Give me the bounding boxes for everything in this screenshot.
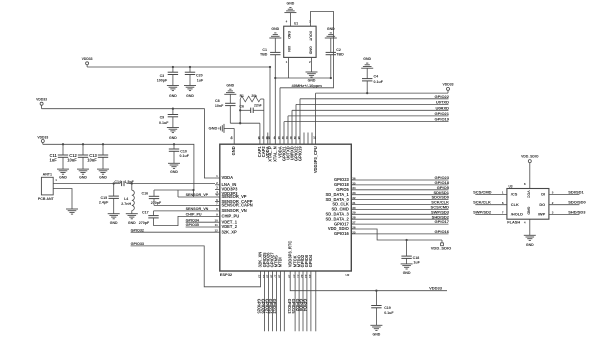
svg-text:FLASH: FLASH bbox=[507, 220, 520, 225]
svg-text:GPIO34: GPIO34 bbox=[186, 218, 200, 222]
svg-text:1uF: 1uF bbox=[197, 79, 204, 83]
svg-text:C1: C1 bbox=[262, 48, 267, 52]
svg-text:C15: C15 bbox=[101, 196, 108, 200]
svg-text:10: 10 bbox=[214, 218, 218, 222]
svg-text:SCS/CMD: SCS/CMD bbox=[473, 189, 492, 194]
svg-text:GND: GND bbox=[186, 94, 194, 98]
svg-text:VDD_SDIO: VDD_SDIO bbox=[431, 245, 451, 250]
svg-text:GND: GND bbox=[309, 46, 313, 54]
svg-text:20k: 20k bbox=[251, 94, 257, 98]
svg-text:SENSOR_CAPN: SENSOR_CAPN bbox=[222, 203, 253, 208]
svg-text:0.1uF: 0.1uF bbox=[180, 154, 190, 158]
svg-text:48: 48 bbox=[257, 136, 261, 140]
svg-text:GND: GND bbox=[169, 136, 177, 140]
svg-text:23: 23 bbox=[304, 275, 308, 279]
svg-text:22nF: 22nF bbox=[254, 104, 262, 108]
svg-text:VDD33: VDD33 bbox=[37, 135, 48, 139]
svg-text:GND: GND bbox=[287, 2, 295, 6]
svg-text:C3: C3 bbox=[160, 74, 165, 78]
svg-text:ANT1: ANT1 bbox=[43, 172, 52, 176]
svg-text:GND: GND bbox=[327, 27, 335, 31]
svg-text:VDD_SDIO: VDD_SDIO bbox=[521, 155, 539, 159]
svg-text:R1: R1 bbox=[240, 94, 244, 98]
svg-text:18: 18 bbox=[278, 275, 282, 279]
svg-text:21: 21 bbox=[296, 275, 300, 279]
svg-text:GPIO16: GPIO16 bbox=[435, 229, 450, 234]
svg-text:U0TXD: U0TXD bbox=[436, 100, 449, 105]
svg-text:DO: DO bbox=[539, 202, 545, 207]
svg-text:13: 13 bbox=[258, 275, 262, 279]
svg-text:GND: GND bbox=[271, 27, 279, 31]
svg-text:GPIO21: GPIO21 bbox=[435, 111, 450, 116]
svg-text:GPIO16: GPIO16 bbox=[334, 231, 350, 236]
svg-text:17: 17 bbox=[274, 275, 278, 279]
svg-text:GPIO12: GPIO12 bbox=[272, 299, 277, 315]
svg-text:U3: U3 bbox=[509, 184, 513, 188]
svg-text:DI: DI bbox=[541, 192, 545, 197]
svg-text:/WP: /WP bbox=[538, 212, 546, 217]
svg-text:XTAL_P: XTAL_P bbox=[267, 146, 272, 162]
svg-text:ESP32: ESP32 bbox=[220, 272, 233, 277]
svg-text:VDD33: VDD33 bbox=[443, 82, 454, 86]
svg-text:SENSOR_VN: SENSOR_VN bbox=[186, 207, 209, 211]
svg-text:GPIO19: GPIO19 bbox=[435, 117, 450, 122]
svg-text:VCC: VCC bbox=[527, 190, 531, 198]
svg-text:GPIO35: GPIO35 bbox=[186, 223, 199, 227]
svg-text:19: 19 bbox=[287, 275, 291, 279]
svg-text:PCB ANT: PCB ANT bbox=[38, 197, 55, 201]
svg-text:10uF: 10uF bbox=[67, 158, 77, 163]
svg-text:39: 39 bbox=[293, 136, 297, 140]
svg-text:C20: C20 bbox=[196, 73, 203, 77]
svg-text:C16: C16 bbox=[142, 191, 149, 195]
svg-text:1uF: 1uF bbox=[413, 261, 420, 265]
svg-text:24: 24 bbox=[308, 275, 312, 279]
svg-text:15: 15 bbox=[266, 275, 270, 279]
svg-text:GND: GND bbox=[287, 31, 291, 39]
svg-text:/HOLD: /HOLD bbox=[511, 212, 523, 217]
svg-text:VDD33: VDD33 bbox=[82, 57, 93, 61]
svg-text:C9: C9 bbox=[160, 116, 165, 120]
svg-text:L4: L4 bbox=[124, 197, 128, 201]
svg-text:C19: C19 bbox=[384, 306, 391, 310]
svg-text:GND: GND bbox=[403, 271, 411, 275]
svg-text:CHIP_PU: CHIP_PU bbox=[186, 213, 202, 217]
svg-text:GPIO22: GPIO22 bbox=[435, 94, 450, 99]
svg-text:U0RXD: U0RXD bbox=[435, 105, 449, 110]
svg-text:GND: GND bbox=[169, 94, 177, 98]
svg-text:SDI/SD1: SDI/SD1 bbox=[568, 189, 584, 194]
svg-text:GND: GND bbox=[226, 83, 234, 87]
svg-text:100pF: 100pF bbox=[157, 79, 168, 83]
svg-text:SHD/SD3: SHD/SD3 bbox=[568, 209, 586, 214]
svg-text:U2: U2 bbox=[346, 273, 350, 277]
svg-text:MTDI: MTDI bbox=[278, 257, 283, 267]
svg-text:VDDA: VDDA bbox=[222, 175, 234, 180]
svg-text:GND: GND bbox=[99, 176, 107, 180]
svg-text:GND: GND bbox=[170, 170, 178, 174]
svg-text:C18: C18 bbox=[413, 256, 420, 260]
svg-text:GND: GND bbox=[373, 333, 381, 337]
svg-text:GND: GND bbox=[110, 221, 118, 225]
svg-text:1uF: 1uF bbox=[50, 158, 58, 163]
svg-text:U1: U1 bbox=[294, 22, 298, 26]
svg-text:38: 38 bbox=[297, 136, 301, 140]
svg-text:SENSOR_VN: SENSOR_VN bbox=[222, 208, 247, 213]
svg-text:20: 20 bbox=[292, 275, 296, 279]
svg-text:SWP/SD2: SWP/SD2 bbox=[473, 209, 492, 214]
svg-text:C8: C8 bbox=[215, 99, 220, 103]
svg-text:GND: GND bbox=[363, 57, 371, 61]
svg-text:16: 16 bbox=[270, 275, 274, 279]
svg-text:VDD33: VDD33 bbox=[36, 98, 47, 102]
svg-text:CHIP_PU: CHIP_PU bbox=[222, 214, 240, 219]
svg-text:270pF: 270pF bbox=[139, 221, 150, 225]
svg-text:0.1uF: 0.1uF bbox=[374, 80, 384, 84]
svg-text:TBD: TBD bbox=[260, 52, 268, 56]
svg-text:10uF: 10uF bbox=[87, 158, 97, 163]
svg-text:SDO/SD0: SDO/SD0 bbox=[568, 200, 586, 205]
svg-text:GND: GND bbox=[231, 146, 236, 155]
svg-text:GND: GND bbox=[209, 126, 218, 131]
svg-text:2.4pF: 2.4pF bbox=[99, 201, 109, 205]
svg-text:VDD33: VDD33 bbox=[429, 286, 443, 291]
svg-text:12: 12 bbox=[214, 228, 218, 232]
svg-text:C14: C14 bbox=[114, 180, 121, 184]
svg-text:GPIO4: GPIO4 bbox=[308, 254, 313, 267]
svg-text:C2: C2 bbox=[336, 48, 341, 52]
svg-text:VDD3P3_CPU: VDD3P3_CPU bbox=[313, 146, 318, 173]
svg-text:GPIO17: GPIO17 bbox=[435, 219, 450, 224]
svg-text:10nF: 10nF bbox=[215, 104, 224, 108]
svg-text:2.7nH: 2.7nH bbox=[121, 202, 131, 206]
svg-text:C10: C10 bbox=[180, 150, 187, 154]
svg-text:32K_XP: 32K_XP bbox=[222, 229, 238, 234]
svg-text:TBD: TBD bbox=[336, 52, 344, 56]
svg-text:22: 22 bbox=[300, 275, 304, 279]
svg-text:SENSOR_VP: SENSOR_VP bbox=[186, 193, 209, 197]
svg-text:11: 11 bbox=[215, 223, 219, 227]
svg-text:GND: GND bbox=[79, 176, 87, 180]
svg-text:14: 14 bbox=[262, 275, 266, 279]
svg-text:GND: GND bbox=[59, 176, 67, 180]
svg-text:GND: GND bbox=[526, 243, 534, 247]
svg-text:43: 43 bbox=[277, 136, 281, 140]
svg-text:270pF: 270pF bbox=[151, 201, 162, 205]
svg-text:XOUT: XOUT bbox=[309, 31, 313, 42]
svg-text:GND: GND bbox=[308, 79, 316, 83]
svg-text:GPIO19: GPIO19 bbox=[297, 146, 302, 162]
svg-text:40: 40 bbox=[289, 136, 293, 140]
svg-text:44: 44 bbox=[272, 136, 276, 140]
svg-text:45: 45 bbox=[267, 136, 271, 140]
svg-text:1.5pF: 1.5pF bbox=[125, 180, 135, 184]
svg-text:47: 47 bbox=[261, 136, 265, 140]
svg-text:C4: C4 bbox=[374, 75, 379, 79]
svg-text:41: 41 bbox=[285, 136, 289, 140]
svg-text:GND: GND bbox=[527, 207, 531, 215]
svg-text:SCK/CLK: SCK/CLK bbox=[473, 200, 491, 205]
svg-text:XIN: XIN bbox=[287, 46, 291, 52]
svg-text:C17: C17 bbox=[142, 211, 149, 215]
svg-text:/CS: /CS bbox=[511, 192, 518, 197]
svg-text:C6: C6 bbox=[239, 105, 244, 109]
svg-text:0.1uF: 0.1uF bbox=[384, 311, 394, 315]
svg-text:CLK: CLK bbox=[511, 202, 519, 207]
svg-text:40MHz+/-10ppm: 40MHz+/-10ppm bbox=[292, 83, 323, 88]
svg-text:GPIO33: GPIO33 bbox=[131, 242, 144, 246]
svg-text:GND: GND bbox=[128, 221, 136, 225]
svg-text:37: 37 bbox=[313, 136, 317, 140]
svg-text:GPIO32: GPIO32 bbox=[131, 228, 144, 232]
svg-text:0.1uF: 0.1uF bbox=[159, 121, 169, 125]
svg-text:GPIO4: GPIO4 bbox=[303, 299, 308, 312]
svg-text:42: 42 bbox=[281, 136, 285, 140]
svg-text:49: 49 bbox=[229, 136, 233, 140]
